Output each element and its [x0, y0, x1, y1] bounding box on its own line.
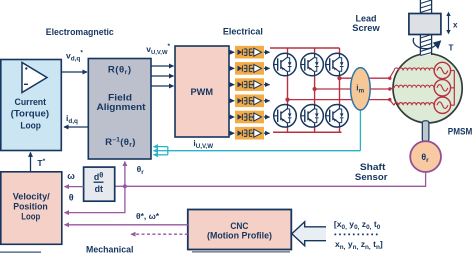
torque rotation arrow T	[413, 38, 453, 53]
wire v_d,q* (Current Loop to Field Alignment)	[61, 50, 87, 73]
svg-text:(Torque): (Torque)	[11, 109, 50, 119]
section label: Lead Screw	[352, 13, 380, 33]
svg-text:Lead: Lead	[356, 13, 377, 23]
block: Field Alignment	[88, 59, 151, 160]
DC bus wire (bottom)	[273, 131, 342, 133]
back-EMF source V	[434, 80, 454, 96]
gate driver U4	[235, 95, 270, 108]
wires PWM to gate drivers (6)	[229, 52, 234, 133]
svg-text:(Motion Profile): (Motion Profile)	[207, 230, 272, 240]
gate driver U3	[235, 78, 270, 91]
dashed wire from CNC	[131, 233, 188, 235]
svg-text:Electromagnetic: Electromagnetic	[46, 27, 114, 37]
gate driver U6	[235, 127, 270, 140]
wire theta_r up into Field Alignment	[125, 162, 144, 187]
current sensor i_m	[351, 68, 371, 151]
DC bus wire (top)	[270, 47, 340, 49]
block: Velocity/Position Loop	[1, 172, 62, 245]
wire theta down to Velocity Loop	[65, 186, 125, 212]
back-EMF source U	[434, 62, 454, 78]
wires v_U,V,W* (Field Alignment to PWM, 3 lines)	[146, 43, 173, 86]
motor PMSM body	[393, 54, 473, 137]
stator winding V	[394, 85, 434, 88]
motor shaft (bottom)	[422, 121, 429, 142]
block: d0/dt differentiator	[84, 167, 115, 201]
x travel arrow	[446, 12, 458, 35]
stator winding U	[394, 68, 434, 71]
svg-text:Position: Position	[13, 201, 48, 211]
wire theta*, omega* (CNC to Velocity Loop)	[65, 211, 188, 225]
svg-text:dt: dt	[95, 184, 103, 194]
bottom crop remnant line (left)	[0, 251, 41, 253]
phase wire U	[288, 99, 390, 101]
IGBT Q3	[326, 53, 349, 76]
svg-text:ω: ω	[67, 171, 75, 181]
block: PWM	[175, 46, 229, 137]
wire theta_r from sensor	[115, 172, 426, 186]
svg-text:θ: θ	[69, 192, 74, 202]
block arrow into CNC	[292, 222, 326, 246]
svg-text:Mechanical: Mechanical	[86, 244, 134, 253]
back-EMF source W	[434, 97, 454, 113]
lead screw nut	[409, 14, 441, 35]
feedback wire i_U,V,W into Field Alignment	[154, 147, 361, 155]
label: Shaft Sensor	[355, 162, 388, 182]
svg-text:Loop: Loop	[21, 211, 40, 221]
svg-text:Screw: Screw	[352, 23, 380, 33]
svg-text:Velocity/: Velocity/	[13, 191, 50, 201]
svg-text:CNC: CNC	[230, 220, 248, 231]
IGBT Q5	[301, 105, 324, 128]
svg-text:Current: Current	[15, 97, 47, 107]
svg-text:R(θr): R(θr)	[108, 65, 132, 77]
gate driver U5	[235, 111, 270, 124]
bridge leg wires	[288, 48, 340, 132]
bottom shadow line under CNC	[192, 251, 290, 253]
winding connection stubs and nodes	[388, 71, 394, 106]
svg-text:Field: Field	[108, 92, 132, 102]
shaft sensor circle (theta_r)	[410, 141, 441, 172]
junction nodes on bridge legs	[285, 76, 341, 102]
svg-text:PWM: PWM	[191, 86, 214, 97]
wire i_d,q (Field Alignment to Current Loop)	[64, 113, 88, 127]
wire omega (d0/dt to Velocity Loop)	[65, 171, 84, 202]
coordinates list text	[334, 219, 383, 251]
block: CNC (Motion Profile)	[188, 210, 291, 250]
node on theta_r wire	[123, 184, 127, 188]
wire T* (Velocity Loop to Current Loop)	[31, 152, 46, 172]
neutral wire	[453, 71, 455, 106]
svg-text:Sensor: Sensor	[355, 172, 388, 182]
IGBT Q1	[274, 53, 297, 76]
gate driver U2	[235, 62, 270, 75]
svg-text:x: x	[453, 20, 458, 29]
stator winding W	[394, 103, 434, 106]
op-amp symbol inside Current Loop	[22, 63, 47, 93]
svg-text:Electrical: Electrical	[223, 27, 263, 37]
IGBT Q6	[326, 105, 349, 128]
block: Current (Torque) Loop	[1, 60, 62, 151]
lead screw rod	[420, 0, 431, 56]
IGBT Q4	[274, 105, 297, 128]
svg-text:T: T	[449, 44, 454, 53]
svg-text:θ*, ω*: θ*, ω*	[136, 211, 160, 221]
IGBT Q2	[301, 53, 324, 76]
svg-text:Shaft: Shaft	[360, 162, 386, 172]
gate driver U1	[235, 46, 270, 59]
svg-text:Alignment: Alignment	[97, 102, 146, 112]
phase wire V	[315, 88, 390, 90]
svg-text:Loop: Loop	[20, 120, 41, 130]
svg-text:PMSM: PMSM	[448, 127, 473, 137]
phase wire W	[340, 77, 390, 79]
